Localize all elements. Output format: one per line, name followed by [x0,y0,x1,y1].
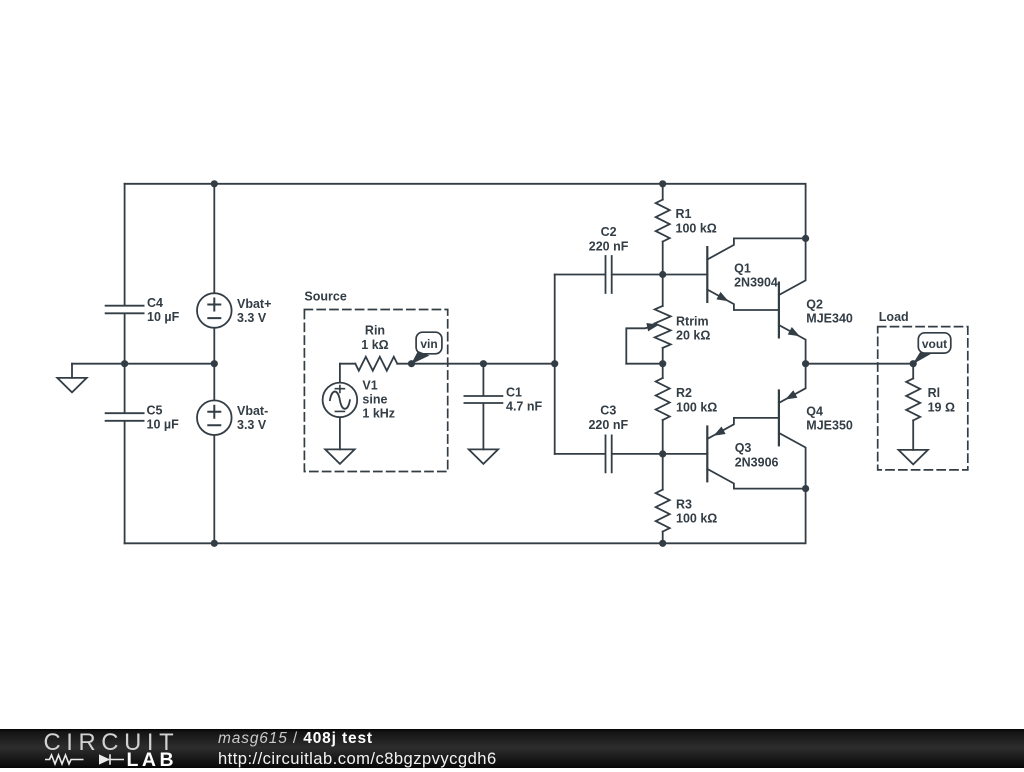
CircuitLab logo LAB [127,749,178,772]
svg-text:C5: C5 [147,404,163,418]
svg-text:4.7 nF: 4.7 nF [506,400,542,414]
transistor Q2 MJE340 (NPN) [778,283,780,338]
svg-text:20 kΩ: 20 kΩ [676,329,710,343]
voltage source Vbat+ 3.3V [213,184,215,364]
capacitor C2 220nF [555,256,663,293]
capacitor C3 220nF [555,435,663,472]
voltage source V1 sine [339,364,341,450]
resistor R3 100k [662,454,664,490]
node Q3/Q4 collectors [802,485,809,492]
node output Q2/Q4 emitters [802,360,809,367]
wire mid ground rail [72,363,214,365]
svg-text:19 Ω: 19 Ω [928,400,955,414]
svg-text:C2: C2 [601,225,617,239]
resistor Rin 1k [340,363,355,365]
Rtrim wiper [626,327,650,364]
potentiometer Rtrim 20k [662,275,664,306]
svg-text:Q1: Q1 [734,261,751,275]
svg-text:10 µF: 10 µF [147,418,180,432]
svg-text:V1: V1 [362,378,377,392]
net flag vin [411,351,430,364]
ground symbol left [71,364,73,378]
svg-text:R1: R1 [676,207,692,221]
wire bottom rail (V-) [125,489,806,544]
svg-text:220 nF: 220 nF [588,418,628,432]
svg-text:C3: C3 [600,404,616,418]
svg-text:Rtrim: Rtrim [676,314,709,328]
svg-text:vout: vout [922,337,947,351]
node vin [408,360,415,367]
transistor Q3 2N3906 (PNP) [663,453,708,455]
svg-text:10 µF: 10 µF [147,310,180,324]
ground V1 [325,449,354,464]
svg-text:2N3906: 2N3906 [735,455,779,469]
svg-text:Rl: Rl [928,386,941,400]
Source dashed box [304,310,447,472]
wire top rail (V+) [125,184,806,239]
svg-text:C4: C4 [147,296,163,310]
footer url [218,749,497,769]
resistor Rl 19 Ohm [912,364,914,379]
svg-text:vin: vin [420,337,437,351]
svg-text:Load: Load [879,310,909,324]
CircuitLab logo CIRCUIT [44,729,180,757]
resistor R1 100k [662,184,664,200]
transistor Q4 MJE350 (PNP) [778,391,780,446]
capacitor C5 [106,364,144,544]
svg-text:1 kΩ: 1 kΩ [361,338,388,352]
svg-text:Rin: Rin [365,324,385,338]
footer bar [0,729,1024,768]
svg-text:Vbat+: Vbat+ [237,297,271,311]
node Q3 base / R2 / R3 / C3 [659,450,666,457]
node top rail / R1 [659,180,666,187]
capacitor C4 [106,184,144,364]
svg-text:100 kΩ: 100 kΩ [676,512,717,526]
node input tee [551,360,558,367]
footer title masg615 / 408j test [218,730,373,748]
svg-text:100 kΩ: 100 kΩ [676,221,717,235]
svg-text:Q3: Q3 [735,441,752,455]
node top rail / Vbat+ [211,180,218,187]
node Q1 collector / top-rail / Q2 collector [802,235,809,242]
svg-text:1 kHz: 1 kHz [362,406,395,420]
transistor Q1 2N3904 (NPN) [663,274,708,276]
wire output to load [806,363,914,365]
CircuitLab logo resistor-diode squiggle [44,752,126,766]
ground Rl [899,450,928,465]
svg-text:220 nF: 220 nF [589,240,629,254]
svg-text:C1: C1 [506,386,522,400]
node Rtrim bottom / R2 [659,360,666,367]
svg-text:100 kΩ: 100 kΩ [676,400,717,414]
svg-text:Vbat-: Vbat- [237,404,268,418]
node Vbat+/Vbat- junction [211,360,218,367]
capacitor C1 4.7nF [464,364,502,450]
svg-text:2N3904: 2N3904 [734,276,778,290]
svg-text:Source: Source [304,290,346,304]
svg-text:MJE350: MJE350 [806,419,853,433]
node C1 [480,360,487,367]
node bottom rail / R3 [659,540,666,547]
net flag vout [913,352,933,364]
svg-text:R2: R2 [676,386,692,400]
svg-text:R3: R3 [676,498,692,512]
voltage source Vbat- 3.3V [213,364,215,544]
node Q1 base / R1 / Rtrim / C2 [659,271,666,278]
svg-text:sine: sine [362,392,387,406]
svg-text:Q2: Q2 [806,297,823,311]
Load dashed box [878,327,968,470]
svg-text:MJE340: MJE340 [806,312,853,326]
node bottom rail / Vbat- [211,540,218,547]
resistor R2 100k [662,364,664,378]
svg-text:3.3 V: 3.3 V [237,418,267,432]
svg-text:Q4: Q4 [806,404,823,418]
wire input tee vertical [554,275,556,454]
ground C1 [469,449,498,464]
node C4/C5 junction [121,360,128,367]
node vout [910,360,917,367]
svg-text:3.3 V: 3.3 V [237,311,267,325]
